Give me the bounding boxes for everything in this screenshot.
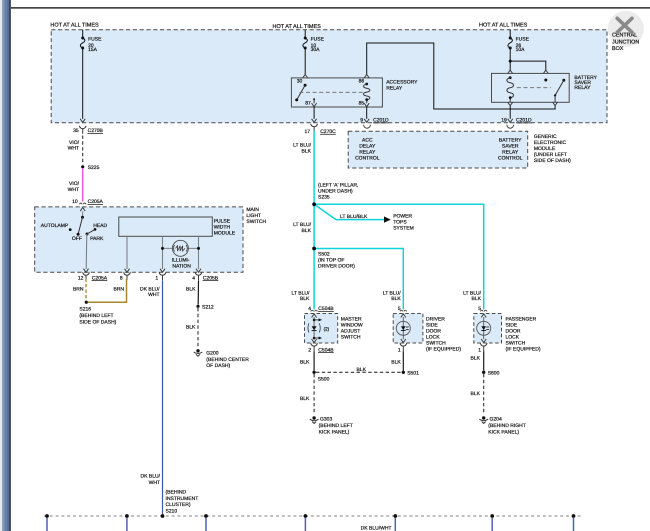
link park contact to head contact	[87, 229, 95, 234]
svg-text:1: 1	[398, 347, 401, 353]
connector C270B pin 35 crossing arrow	[80, 119, 85, 123]
passenger side door lock switch box	[474, 314, 502, 344]
svg-text:86: 86	[359, 79, 365, 85]
wire battery saver coil to C201D pin 19	[509, 106, 511, 119]
svg-text:OFF: OFF	[72, 236, 82, 242]
svg-text:1: 1	[478, 347, 481, 353]
wire BLK dashed S500 to S501	[316, 371, 402, 373]
svg-text:MODULE: MODULE	[214, 231, 236, 237]
svg-text:CONTROL: CONTROL	[355, 155, 380, 161]
svg-text:SIDE OF DASH): SIDE OF DASH)	[534, 158, 571, 164]
svg-text:WHT: WHT	[149, 480, 160, 486]
svg-text:C205B: C205B	[203, 275, 219, 281]
svg-text:12: 12	[78, 275, 84, 281]
bottom bus dashed wire	[44, 515, 583, 517]
bus node 4	[304, 514, 308, 518]
accessory relay switch arm	[304, 84, 307, 87]
wire DK BLU/WHT pin 1 to S210	[162, 281, 164, 515]
svg-text:10: 10	[72, 199, 78, 205]
master switch internal	[312, 314, 317, 318]
svg-text:S210: S210	[166, 509, 178, 515]
wire VIO/WHT dashed from C270B to S225	[82, 136, 84, 165]
svg-text:C205A: C205A	[92, 275, 108, 281]
svg-text:RELAY: RELAY	[574, 85, 591, 91]
wire BLK dashed S500 to G303	[313, 374, 315, 414]
svg-text:WHT: WHT	[148, 292, 159, 298]
svg-text:SYSTEM: SYSTEM	[393, 226, 414, 232]
node on pin 4 wire	[197, 247, 200, 250]
svg-text:HOT AT ALL TIMES: HOT AT ALL TIMES	[479, 23, 528, 29]
bus node 7	[572, 514, 576, 518]
svg-text:C270B: C270B	[88, 128, 104, 134]
wire S235 to passenger door switch	[314, 204, 484, 309]
accessory relay coil pin 86	[364, 74, 369, 78]
bus node 6	[490, 514, 494, 518]
splice S216	[85, 301, 88, 304]
battery saver relay U2 box	[492, 73, 570, 102]
svg-text:G200: G200	[206, 350, 218, 356]
svg-text:8: 8	[120, 275, 123, 281]
driver side door lock switch box	[393, 314, 423, 344]
wire BLK master to S500	[313, 351, 315, 370]
svg-text:SWITCH: SWITCH	[341, 335, 361, 341]
svg-text:KICK PANEL): KICK PANEL)	[488, 429, 519, 435]
svg-text:1: 1	[155, 275, 158, 281]
svg-text:BLK: BLK	[300, 296, 310, 302]
svg-text:DRIVER DOOR): DRIVER DOOR)	[318, 264, 355, 270]
svg-text:S501: S501	[407, 371, 419, 377]
svg-text:FUSE: FUSE	[311, 36, 325, 42]
node on pin 1 wire	[161, 247, 164, 250]
svg-text:(BEHIND CENTER: (BEHIND CENTER	[206, 357, 249, 363]
window left bar dark edge	[9, 0, 11, 531]
fuse 26 10A	[508, 37, 513, 50]
svg-text:(BEHIND: (BEHIND	[166, 490, 187, 496]
svg-text:S225: S225	[88, 165, 100, 171]
splice S212	[196, 305, 199, 308]
battery saver relay switch arm	[562, 79, 565, 82]
battery saver relay coil exit arrow	[509, 98, 511, 102]
switch position contacts	[69, 228, 72, 231]
wire park contact down to pin 12	[85, 234, 88, 269]
splice S210 junction	[161, 514, 165, 518]
svg-text:4: 4	[192, 275, 195, 281]
wire S502 to driver door switch	[314, 249, 403, 310]
main light switch pin 4	[196, 269, 201, 273]
svg-text:FUSE: FUSE	[516, 36, 530, 42]
gem control dashed box (acc delay / battery saver relay control)	[348, 131, 528, 168]
arrow to power tops system	[384, 216, 391, 222]
wire from hot feed to fuse 26	[509, 30, 511, 38]
window left blue bar	[2, 0, 9, 531]
wire from hot feed to fuse 10	[304, 30, 306, 38]
svg-text:10A: 10A	[516, 47, 526, 53]
svg-text:30A: 30A	[311, 47, 321, 53]
connector C504B pin 2 (master)	[311, 343, 318, 351]
main light switch pin 8	[125, 269, 130, 273]
svg-text:DK BLU/WHT: DK BLU/WHT	[361, 526, 392, 531]
wire BRN pin 8 to S216	[88, 279, 127, 303]
bus node 1	[45, 514, 49, 518]
svg-text:HOT AT ALL TIMES: HOT AT ALL TIMES	[273, 24, 322, 30]
svg-text:19: 19	[501, 118, 507, 124]
svg-text:17: 17	[304, 129, 310, 135]
svg-text:S212: S212	[202, 304, 214, 310]
main light switch arm	[81, 216, 84, 219]
illumination lamp link wire	[163, 247, 199, 249]
svg-text:C201D: C201D	[373, 118, 389, 124]
wire fuse 20 down to C270B	[82, 48, 84, 119]
svg-text:CLUSTER): CLUSTER)	[166, 502, 191, 508]
main light switch pin 10 entry arrow	[80, 208, 85, 212]
driver switch internal led	[401, 314, 406, 318]
bus node 2	[125, 514, 129, 518]
svg-text:BLK: BLK	[357, 367, 367, 373]
svg-text:CENTRAL: CENTRAL	[612, 33, 637, 39]
svg-text:INSTRUMENT: INSTRUMENT	[166, 496, 199, 502]
svg-text:BLK: BLK	[302, 149, 312, 155]
splice S225	[81, 165, 84, 168]
svg-text:(IF EQUIPPED): (IF EQUIPPED)	[506, 347, 541, 353]
main light switch pin 12	[84, 269, 89, 273]
bus node 3	[204, 514, 208, 518]
wire VIO/WHT solid from S225 to C205A	[82, 169, 84, 202]
svg-text:85: 85	[359, 100, 365, 106]
svg-text:BLK: BLK	[186, 325, 196, 331]
wire branch to battery saver relay switch pin	[510, 61, 546, 70]
wire BLK pin 4 to S212	[197, 281, 199, 305]
svg-text:(BEHIND RIGHT: (BEHIND RIGHT	[488, 423, 526, 429]
svg-text:KICK PANEL): KICK PANEL)	[319, 429, 350, 435]
ground G204	[479, 416, 488, 423]
svg-text:BLK: BLK	[472, 296, 482, 302]
svg-text:30: 30	[297, 79, 303, 85]
master window adjust switch box	[305, 314, 338, 344]
svg-text:PARK: PARK	[90, 236, 104, 242]
accessory relay actuator dashed link	[299, 91, 365, 93]
svg-text:BLK: BLK	[471, 391, 481, 397]
svg-text:(2): (2)	[324, 326, 330, 331]
accessory relay pin 30 arrow	[303, 74, 308, 78]
svg-text:C205A: C205A	[88, 199, 104, 205]
svg-text:87: 87	[305, 100, 311, 106]
main light switch pin 1	[160, 269, 165, 273]
main light switch dashed box	[35, 207, 243, 272]
accessory relay U1 box	[291, 78, 382, 107]
svg-text:9: 9	[360, 118, 363, 124]
splice S500	[312, 371, 315, 374]
battery saver relay coil	[507, 78, 514, 98]
battery saver relay actuator dashed link	[517, 87, 551, 89]
wire fuse 26 to battery saver relay	[509, 48, 511, 70]
wire BRN dashed pin 12 to S216	[85, 279, 87, 301]
svg-text:AUTOLAMP: AUTOLAMP	[41, 223, 69, 229]
svg-text:(BEHIND LEFT: (BEHIND LEFT	[319, 423, 353, 429]
svg-text:C504B: C504B	[318, 347, 334, 353]
svg-text:G204: G204	[490, 416, 502, 422]
svg-text:(IF EQUIPPED): (IF EQUIPPED)	[426, 347, 461, 353]
svg-text:RELAY: RELAY	[386, 85, 403, 91]
svg-text:35: 35	[73, 128, 79, 134]
accessory relay coil	[364, 84, 370, 99]
svg-text:15A: 15A	[88, 47, 98, 53]
close button X	[617, 18, 632, 32]
svg-text:S600: S600	[488, 371, 500, 377]
master switch led	[312, 326, 317, 330]
wire BLK passenger to S600	[483, 351, 485, 370]
svg-text:OF DASH): OF DASH)	[206, 363, 230, 369]
connector pin 1 (passenger)	[480, 343, 487, 351]
connector C201D pin 19	[508, 119, 513, 123]
frame top border line	[11, 7, 650, 9]
pwm wire to pin 8	[126, 236, 128, 269]
svg-text:FUSE: FUSE	[88, 36, 102, 42]
wire from hot feed to fuse 20	[82, 30, 84, 38]
wire accessory relay pin 85 to C201D pin 9	[366, 107, 368, 119]
svg-text:BLK: BLK	[300, 359, 310, 365]
wire accessory relay pin 87 to C270C pin 17	[313, 107, 315, 119]
svg-text:G303: G303	[320, 416, 332, 422]
splice S235	[312, 202, 316, 206]
svg-text:WHT: WHT	[68, 187, 79, 193]
ground G303	[310, 416, 319, 423]
svg-text:JUNCTION: JUNCTION	[612, 40, 639, 46]
svg-text:DK BLU/: DK BLU/	[141, 474, 161, 480]
svg-text:CONTROL: CONTROL	[498, 155, 523, 161]
pulse width module box	[119, 217, 213, 236]
connector pin 1 (driver)	[400, 343, 407, 351]
svg-text:SIDE OF DASH): SIDE OF DASH)	[79, 319, 116, 325]
svg-text:BRN: BRN	[113, 287, 124, 293]
svg-text:2: 2	[308, 347, 311, 353]
svg-text:BRN: BRN	[73, 287, 84, 293]
svg-text:S216: S216	[79, 307, 91, 313]
fuse 20 15A	[80, 37, 85, 50]
svg-text:C504B: C504B	[318, 306, 334, 312]
passenger switch internal led	[481, 314, 486, 318]
svg-text:C270C: C270C	[320, 129, 336, 135]
wire branch to power tops system	[314, 204, 384, 219]
splice S502	[312, 247, 316, 251]
central junction box dashed region	[51, 30, 607, 123]
wire loop: accessory relay pin 86 to battery saver relay switch	[367, 43, 555, 109]
svg-text:S500: S500	[318, 377, 330, 383]
svg-text:HEAD: HEAD	[93, 223, 107, 229]
svg-text:HOT AT ALL TIMES: HOT AT ALL TIMES	[50, 23, 99, 29]
svg-text:BLK: BLK	[391, 296, 401, 302]
svg-text:BLK: BLK	[300, 396, 310, 402]
connector C201D pin 9	[364, 119, 369, 123]
svg-text:BLK: BLK	[391, 359, 401, 365]
wire BLK dashed S212 to G200	[197, 308, 199, 348]
svg-text:NATION: NATION	[172, 264, 191, 270]
connector C270C pin 17	[312, 119, 317, 123]
wire fuse 10 to accessory relay pin 30	[304, 48, 306, 74]
svg-text:SWITCH: SWITCH	[246, 219, 266, 225]
wire BLK driver to S501	[402, 351, 404, 370]
window left edge light strip	[0, 0, 2, 531]
wire LT BLU/BLK from C270C down to master switch	[313, 131, 315, 310]
node junction on fuse 26 wire	[509, 60, 512, 63]
svg-text:BLK: BLK	[302, 228, 312, 234]
svg-text:C201D: C201D	[516, 118, 532, 124]
svg-text:WHT: WHT	[68, 145, 79, 151]
battery saver relay switch pin arrow	[543, 70, 548, 74]
ground G200	[194, 349, 203, 356]
wire BLK dashed S600 to G204	[483, 374, 485, 414]
splice S600	[482, 371, 485, 374]
illumination lamp	[172, 240, 188, 256]
svg-text:BOX: BOX	[612, 46, 624, 52]
svg-text:LT BLU/BLK: LT BLU/BLK	[340, 214, 368, 220]
pwm wire to pin 1	[162, 236, 164, 269]
svg-text:(BEHIND LEFT: (BEHIND LEFT	[79, 313, 113, 319]
svg-text:S235: S235	[318, 195, 330, 201]
close button circle	[608, 11, 644, 47]
svg-text:BLK: BLK	[471, 356, 481, 362]
svg-text:BLK: BLK	[186, 287, 196, 293]
splice S501	[402, 371, 405, 374]
battery saver relay coil pin arrow	[508, 70, 513, 74]
pwm wire to pin 4	[198, 236, 200, 269]
bus node 5	[393, 514, 397, 518]
fuse 10 30A	[303, 37, 308, 50]
